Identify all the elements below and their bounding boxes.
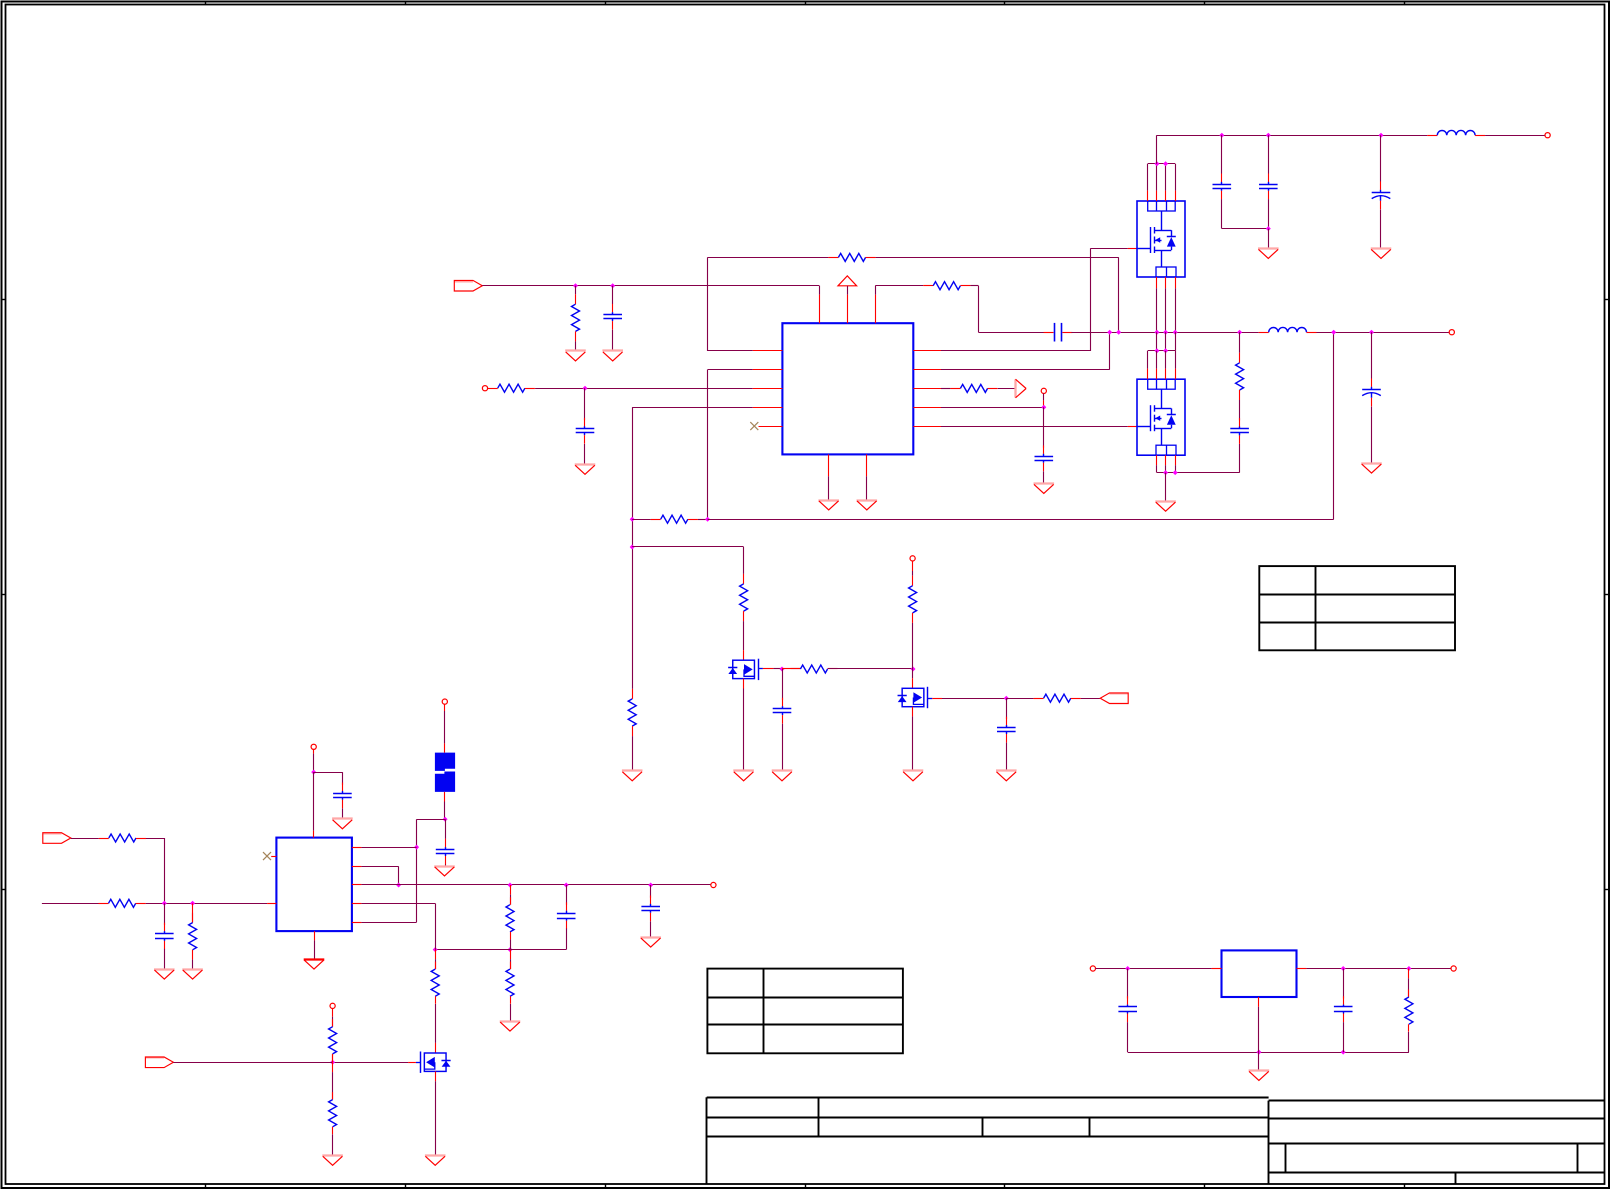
wire (1268, 199, 1270, 228)
junction (573, 283, 578, 288)
wire (708, 257, 829, 259)
wire (1156, 164, 1158, 201)
wire (828, 476, 830, 500)
capacitor C_in2 (576, 418, 595, 444)
wire (743, 547, 745, 574)
ground (622, 771, 643, 781)
U1 pin R1 (913, 350, 941, 352)
resistor R_bst (923, 282, 970, 290)
wire (1371, 332, 1373, 378)
wire (1175, 351, 1177, 379)
wire (698, 519, 708, 521)
U1 pin top3 (875, 295, 877, 324)
F1 top pin (444, 743, 446, 752)
wire (1165, 351, 1167, 379)
wire (435, 903, 437, 949)
ground (425, 1156, 446, 1166)
no-connect X (750, 422, 758, 430)
wire (566, 885, 568, 905)
wire (146, 838, 164, 840)
resistor R_m1 (740, 574, 748, 621)
wire (1175, 277, 1177, 332)
Q4 source pin (743, 679, 745, 689)
wire (743, 621, 745, 650)
U1 pin L5 (759, 426, 783, 428)
ground (1361, 464, 1382, 474)
U1 pin L3 (753, 388, 783, 390)
wire (1006, 698, 1033, 700)
wire (510, 1004, 512, 1021)
wire (1090, 248, 1092, 351)
no-connect X (263, 852, 271, 860)
junction (1154, 161, 1159, 166)
wire (1268, 229, 1270, 249)
revision table 2 (707, 969, 903, 1054)
port triangle OUT3 (1016, 379, 1027, 398)
wire (1043, 471, 1045, 483)
U1 pin B2 (866, 454, 868, 476)
wire (566, 928, 568, 949)
wire (173, 1062, 332, 1064)
resistor R_in2 (488, 384, 535, 392)
capacitor C_in1 (603, 304, 622, 330)
wire (1165, 455, 1167, 472)
U1 pin L1 (753, 350, 783, 352)
junction (1173, 470, 1178, 475)
ground (565, 351, 586, 361)
wire (435, 1081, 437, 1155)
junction (911, 667, 916, 672)
U1 pin L2 (753, 369, 783, 371)
terminal SW-OUT (1449, 330, 1454, 335)
wire (1006, 743, 1008, 771)
junction (330, 1060, 335, 1065)
capacitor C_f1 (436, 839, 455, 865)
junction (1369, 330, 1374, 335)
wire (510, 939, 512, 949)
Q3 source pin (435, 1071, 437, 1081)
wire (1258, 1007, 1260, 1052)
wire (192, 960, 194, 970)
capacitor C_o2 (1259, 174, 1278, 200)
wire (435, 949, 510, 951)
wire (332, 1134, 334, 1155)
wire (1071, 332, 1258, 334)
wire (1268, 135, 1270, 173)
wire (361, 922, 416, 924)
wire (1165, 473, 1167, 502)
junction (1237, 330, 1242, 335)
ground (602, 351, 623, 361)
wire (1221, 199, 1223, 228)
junction (508, 883, 513, 888)
wire (866, 476, 868, 500)
wire (1091, 248, 1128, 250)
junction (433, 947, 438, 952)
U3 pin out (1297, 968, 1307, 970)
wire (773, 668, 782, 670)
terminal VBAT-M (910, 556, 915, 561)
wire (782, 669, 784, 700)
wire (875, 286, 877, 295)
junction (1163, 330, 1168, 335)
wire (612, 330, 614, 351)
Q1 gate pin (1128, 248, 1137, 250)
junction (414, 845, 419, 850)
junction (1163, 161, 1168, 166)
junction (1154, 348, 1159, 353)
resistor R_fb_top (828, 253, 875, 261)
wire (1109, 332, 1111, 369)
wire (398, 866, 400, 885)
U1 pin B1 (828, 454, 830, 476)
resistor R_m4 (1034, 694, 1081, 702)
wire (1165, 164, 1167, 201)
U2 pin R5 (352, 922, 362, 924)
capacitor C_out2 (641, 896, 660, 922)
capacitor C_sw (polarized) (1362, 378, 1381, 406)
ground (500, 1022, 521, 1032)
junction (443, 817, 448, 822)
wire (1127, 1022, 1129, 1052)
ground (1371, 249, 1392, 259)
junction (780, 667, 785, 672)
wire (435, 1004, 437, 1043)
junction (1331, 330, 1336, 335)
port tag CTRL (145, 1057, 173, 1068)
port tag EN (1100, 693, 1128, 704)
inductor L1 (1427, 130, 1485, 135)
U2 pin L2 (267, 903, 276, 905)
resistor R_q3 (431, 962, 439, 1004)
Q3 gate pin (408, 1062, 416, 1064)
wire (941, 407, 1044, 409)
wire (361, 847, 416, 849)
wire (912, 561, 914, 576)
resistor R_pd (329, 1092, 337, 1134)
wire (314, 940, 316, 959)
capacitor C_o3 (polarized) (1372, 181, 1391, 209)
wire (1317, 332, 1450, 334)
U2 pin L1 (271, 856, 276, 858)
U1 pin R2 (913, 369, 941, 371)
capacitor C_m1 (773, 698, 792, 724)
wire (1343, 1022, 1345, 1052)
ground (154, 970, 175, 980)
port tag IN-A (43, 833, 71, 844)
capacitor C_a1 (155, 923, 174, 950)
wire (1343, 969, 1345, 999)
resistor R_a2 (99, 899, 146, 907)
ground (903, 771, 924, 781)
regulator U3 box (1222, 950, 1297, 997)
junction (1219, 133, 1224, 138)
wire (1148, 350, 1176, 352)
U1 pin L4 (753, 407, 783, 409)
wire (912, 623, 914, 669)
terminal SENSE (1041, 388, 1046, 393)
wire (146, 903, 267, 905)
wire (875, 285, 923, 287)
wire (417, 819, 446, 821)
wire (941, 350, 1091, 352)
wire (1408, 969, 1410, 998)
wire (575, 286, 577, 295)
U2 pin R2 (352, 866, 362, 868)
wire (444, 704, 446, 743)
wire (1118, 257, 1120, 332)
U1 pin R4 (913, 407, 941, 409)
wire (998, 388, 1016, 390)
wire (1148, 163, 1176, 165)
wire (1165, 277, 1167, 332)
wire (1371, 407, 1373, 464)
resistor R_m2 (790, 665, 837, 673)
fuse F1 (435, 753, 455, 792)
Q5 gate pin (932, 698, 942, 700)
ground (332, 819, 353, 829)
wire (332, 1009, 334, 1027)
wire (435, 950, 437, 970)
wire (1043, 394, 1045, 408)
junction (1107, 330, 1112, 335)
wire (650, 921, 652, 937)
Q4 gate pin (763, 668, 774, 670)
wire (792, 668, 800, 670)
wire (1239, 332, 1241, 353)
resistor R_div2 (506, 962, 514, 1004)
ground (575, 465, 596, 475)
U2 pin R4 (352, 903, 362, 905)
U2 pin R3 (352, 884, 362, 886)
wire (510, 885, 512, 905)
resistor R_pu (329, 1019, 337, 1061)
wire (941, 388, 950, 390)
wire (1239, 444, 1241, 473)
wire (632, 407, 634, 689)
ground (304, 960, 325, 970)
terminal REG-IN (1090, 966, 1095, 971)
junction (630, 545, 635, 550)
Q2 gate pin (1128, 426, 1137, 428)
resistor R_in1 (572, 294, 580, 341)
wire (876, 257, 1119, 259)
junction (1125, 966, 1130, 971)
junction (1379, 133, 1384, 138)
wire (978, 332, 1044, 334)
wire (1165, 332, 1167, 351)
terminal VOUT1 (1545, 133, 1550, 138)
wire (1157, 135, 1427, 137)
ground (772, 771, 793, 781)
ground (640, 938, 661, 948)
wire (708, 369, 753, 371)
wire (708, 350, 753, 352)
wire (342, 808, 344, 819)
ground (1155, 502, 1176, 512)
capacitor C_snub (1230, 418, 1249, 444)
resistor R_load (1405, 990, 1413, 1032)
wire (1081, 698, 1100, 700)
wire (361, 884, 710, 886)
capacitor C_r2 (1334, 996, 1353, 1022)
transistor Q5 (898, 687, 928, 708)
U3 pin in (1212, 968, 1222, 970)
wire (1147, 351, 1149, 379)
U1 pin R5 (913, 426, 941, 428)
wire (482, 285, 819, 287)
title block (707, 1097, 1605, 1184)
wire (782, 724, 784, 771)
transistor Q4 (728, 659, 758, 680)
wire (42, 903, 99, 905)
junction (1256, 1050, 1261, 1055)
wire (584, 388, 586, 420)
wire (1239, 400, 1241, 420)
resistor R_m3 (909, 576, 917, 623)
wire (1380, 135, 1382, 181)
wire (333, 1062, 409, 1064)
wire (313, 749, 315, 772)
junction (190, 901, 195, 906)
wire (708, 519, 1334, 521)
wire (1175, 332, 1177, 351)
U2 pin R1 (352, 847, 362, 849)
wire (332, 1054, 334, 1062)
resistor R_a3 (189, 913, 197, 960)
junction (1406, 966, 1411, 971)
ground (182, 970, 203, 980)
wire (632, 519, 651, 521)
resistor R_out3 (950, 384, 997, 392)
ground (818, 501, 839, 510)
Q5 drain pin (912, 678, 914, 688)
wire (332, 1062, 334, 1099)
terminal PULL (330, 1003, 335, 1008)
capacitor C_r1 (1118, 996, 1137, 1022)
junction (162, 901, 167, 906)
wire (632, 736, 634, 771)
ground (322, 1156, 343, 1166)
ground (434, 867, 455, 876)
wire (1222, 228, 1269, 230)
wire (782, 668, 792, 670)
wire (510, 950, 512, 970)
wire (575, 341, 577, 351)
wire (1258, 1052, 1260, 1070)
junction (1266, 226, 1271, 231)
U1 pin top2 (847, 295, 849, 324)
junction (1341, 1050, 1346, 1055)
wire (164, 949, 166, 969)
wire (1156, 135, 1158, 164)
junction (630, 517, 635, 522)
wire (1408, 1032, 1410, 1052)
revision table 1 (1259, 566, 1455, 650)
wire (416, 819, 418, 922)
terminal REG-OUT (1451, 966, 1456, 971)
ground (1034, 484, 1055, 494)
junction (396, 883, 401, 888)
wire (707, 370, 709, 520)
wire (650, 885, 652, 898)
wire (1221, 135, 1223, 173)
U1 pin top1 (819, 295, 821, 324)
wire (978, 286, 980, 333)
wire (942, 698, 1006, 700)
junction (1041, 405, 1046, 410)
wire (912, 716, 914, 771)
wire (416, 1062, 421, 1064)
inductor L2 (1259, 327, 1317, 332)
ground (996, 771, 1017, 781)
U2 pin top (313, 831, 315, 838)
U1 pin R3 (913, 388, 941, 390)
wire (1096, 968, 1212, 970)
wire (361, 866, 398, 868)
capacitor C_o1 (1213, 174, 1232, 200)
wire (1006, 698, 1008, 719)
wire (1156, 332, 1158, 351)
wire (707, 257, 709, 351)
capacitor C_vcc2 (333, 783, 352, 809)
ground (1249, 1071, 1270, 1081)
junction (583, 386, 588, 391)
wire (1156, 455, 1158, 472)
wire (1128, 1052, 1409, 1054)
wire (912, 669, 914, 678)
wire (1333, 332, 1335, 519)
terminal VBAT2 (442, 699, 447, 704)
terminal IN2 (482, 386, 487, 391)
wire (970, 285, 978, 287)
junction (1116, 330, 1121, 335)
wire (314, 772, 343, 774)
junction (1004, 696, 1009, 701)
wire (445, 819, 447, 839)
resistor R_a1 (99, 834, 146, 842)
junction (1154, 330, 1159, 335)
power flag VCC (838, 276, 857, 286)
junction (1163, 470, 1168, 475)
F1 bottom pin (444, 792, 446, 802)
resistor R_fb2 (628, 689, 636, 736)
capacitor C_bst (series) (1044, 323, 1073, 342)
wire (819, 286, 821, 295)
wire (510, 949, 566, 951)
junction (1173, 330, 1178, 335)
resistor R_fb1 (651, 515, 698, 523)
junction (1163, 348, 1168, 353)
junction (508, 947, 513, 952)
wire (444, 802, 446, 820)
wire (1175, 455, 1177, 472)
wire (743, 689, 745, 771)
transistor Q1 package (1137, 201, 1185, 277)
Q5 source pin (912, 707, 914, 717)
op-amp U1 controller box (782, 323, 913, 454)
junction (705, 517, 710, 522)
wire (1485, 135, 1545, 137)
capacitor C_div (557, 902, 576, 929)
resistor R_snub (1236, 353, 1244, 400)
junction (564, 883, 569, 888)
U3 pin gnd (1258, 997, 1260, 1007)
wire (612, 286, 614, 304)
wire (1157, 472, 1240, 474)
ground (857, 501, 878, 510)
resistor R_div1 (506, 897, 514, 939)
